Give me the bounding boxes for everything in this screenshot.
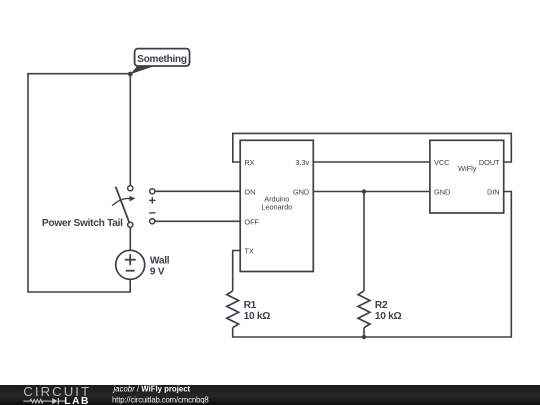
wire [363, 328, 365, 337]
wire [155, 220, 240, 222]
svg-text:Wall: Wall [150, 255, 170, 266]
wire [233, 133, 512, 162]
logo resistor-diode glyph [23, 398, 65, 404]
wire [363, 192, 365, 291]
svg-text:WiFly: WiFly [458, 164, 477, 173]
wire [155, 190, 240, 192]
svg-text:VCC: VCC [434, 158, 450, 167]
node at callout junction [128, 72, 133, 77]
resistor R2 [358, 291, 370, 328]
svg-text:GND: GND [434, 188, 450, 197]
wire [313, 191, 430, 193]
wire [28, 74, 130, 292]
wire [313, 161, 430, 163]
svg-text:9 V: 9 V [150, 266, 165, 277]
op-amp U2 WiFly box [430, 140, 504, 213]
svg-text:jacobr / WiFly project: jacobr / WiFly project [113, 385, 191, 394]
svg-text:ON: ON [244, 188, 255, 197]
svg-text:10 kΩ: 10 kΩ [375, 311, 402, 322]
wire [233, 251, 241, 291]
svg-text:3.3v: 3.3v [295, 158, 309, 167]
svg-text:http://circuitlab.com/cmcnbq8: http://circuitlab.com/cmcnbq8 [112, 395, 209, 404]
node GND junction [362, 189, 366, 193]
svg-text:Something: Something [137, 54, 187, 65]
svg-text:LAB: LAB [64, 395, 90, 405]
svg-text:DOUT: DOUT [479, 158, 500, 167]
switch SW1 Power Switch Tail [112, 186, 135, 228]
svg-text:R2: R2 [375, 300, 388, 311]
node bottom junction [362, 335, 366, 339]
wire [129, 227, 131, 250]
wire [233, 192, 512, 338]
label R2 10 kΩ [375, 300, 402, 322]
svg-text:RX: RX [244, 158, 254, 167]
svg-text:GND: GND [293, 188, 309, 197]
svg-text:OFF: OFF [244, 218, 259, 227]
polarity + sign [149, 197, 155, 203]
svg-text:TX: TX [244, 247, 253, 256]
svg-text:Power Switch Tail: Power Switch Tail [42, 218, 123, 229]
svg-text:10 kΩ: 10 kΩ [244, 311, 271, 322]
footer bar [0, 385, 540, 405]
resistor R1 [227, 291, 239, 328]
voltage source V1 Wall [116, 250, 145, 279]
label Wall 9 V [150, 255, 170, 277]
svg-text:Leonardo: Leonardo [261, 202, 292, 211]
terminal + [150, 189, 155, 194]
terminal - [150, 219, 155, 224]
svg-text:R1: R1 [244, 300, 257, 311]
polarity - sign [149, 212, 155, 214]
op-amp U1 Arduino Leonardo box [240, 140, 313, 271]
callout Something [130, 49, 189, 75]
wire [129, 74, 131, 186]
label R1 10 kΩ [244, 300, 271, 322]
svg-text:DIN: DIN [487, 188, 500, 197]
